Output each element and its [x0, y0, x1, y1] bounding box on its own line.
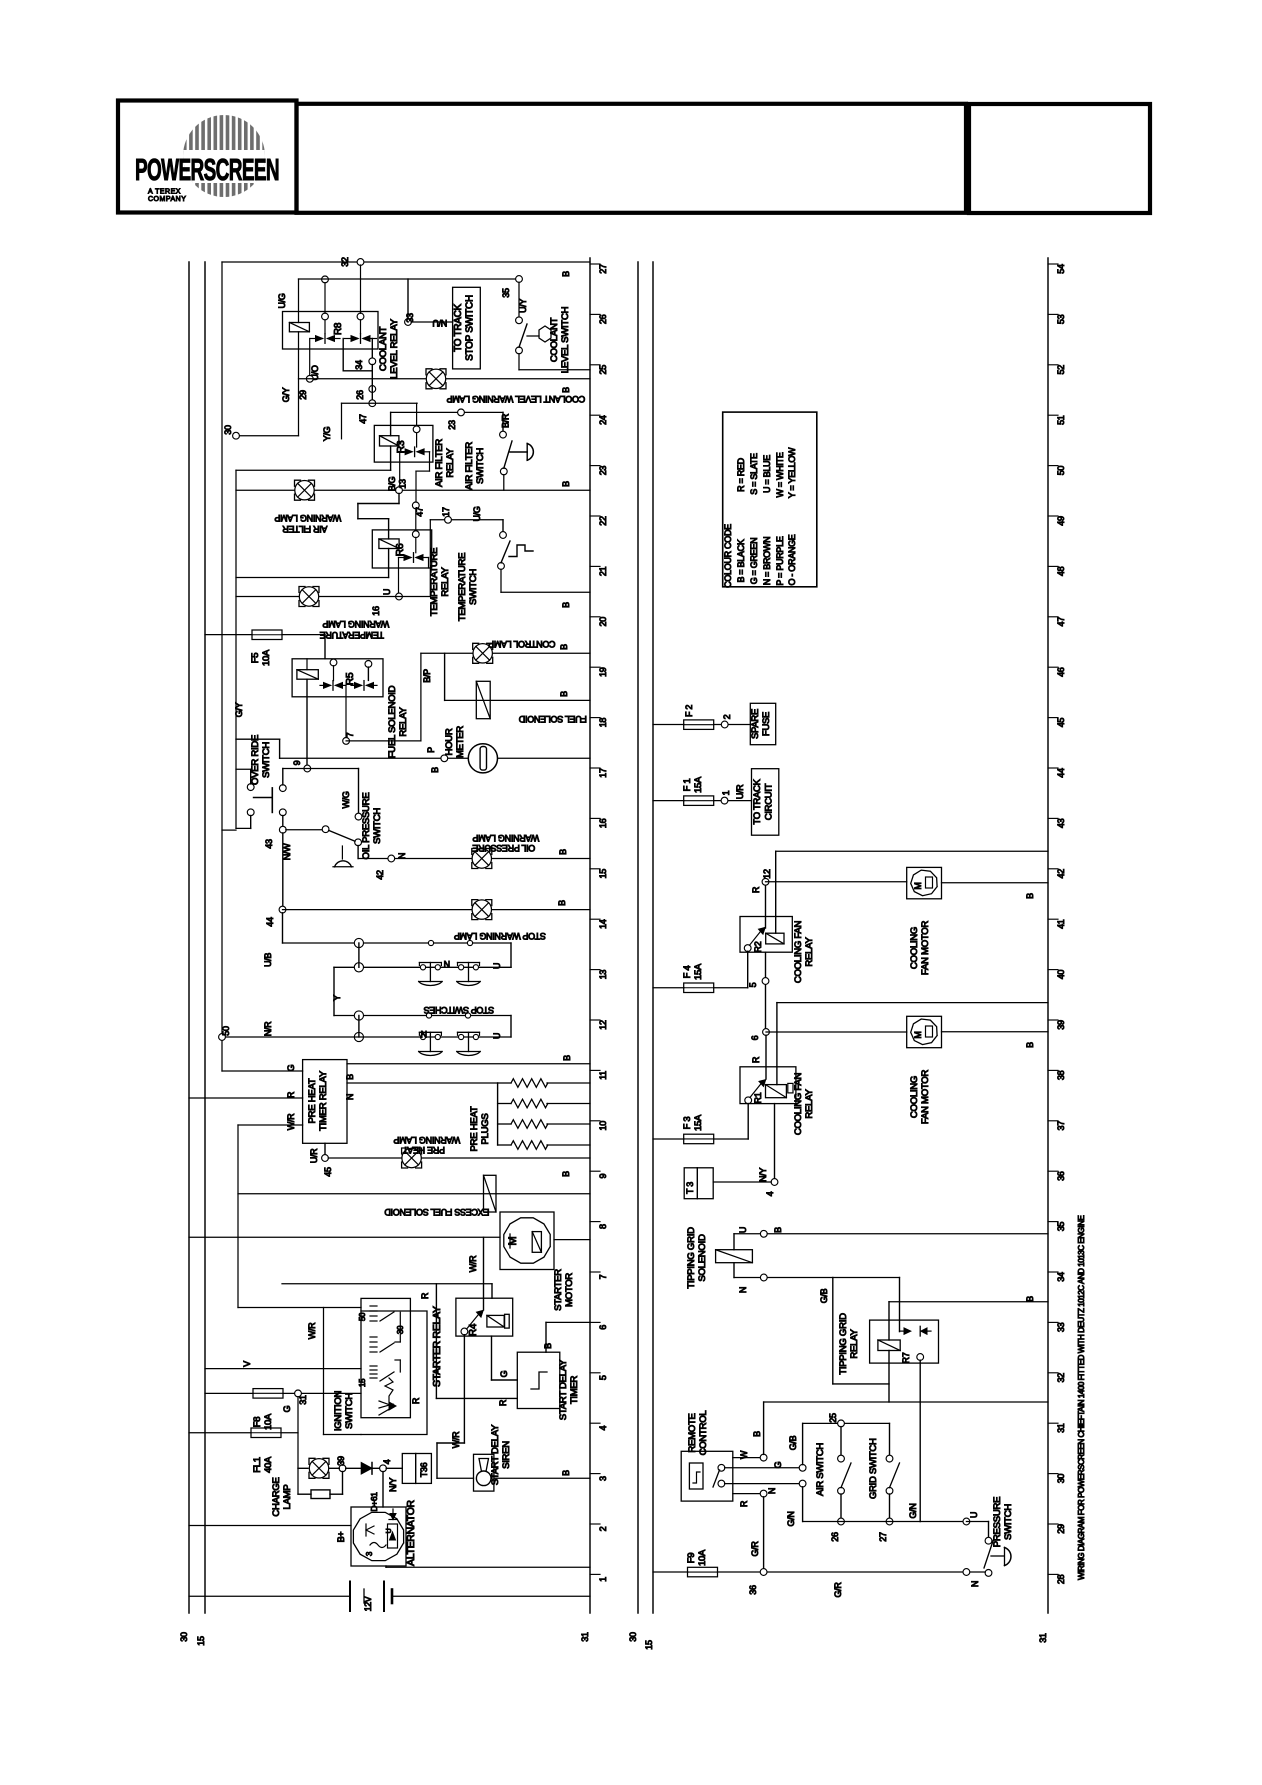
svg-text:W/R: W/R: [286, 1113, 296, 1130]
svg-text:17: 17: [441, 507, 451, 517]
wire fuse F2 feed: [653, 724, 684, 726]
ignition switch glow symbol: [379, 1401, 396, 1415]
terminal 45: [322, 1155, 333, 1177]
svg-text:B/R: B/R: [501, 413, 511, 428]
terminal circle third wire: [786, 1480, 806, 1526]
svg-text:N/Y: N/Y: [388, 1478, 398, 1492]
section1 earth rail 31 (right vertical): [589, 258, 591, 1613]
svg-text:START DELAY: START DELAY: [558, 1359, 569, 1420]
oil pressure switch contact top: [355, 813, 362, 820]
relay R6 contact: [399, 509, 429, 594]
wire colour label B motor1: [1025, 893, 1035, 899]
wire from coolant relay contact2 top to terminal 33: [407, 279, 409, 319]
terminal 35: [501, 276, 522, 298]
svg-text:R7: R7: [901, 1352, 911, 1363]
svg-text:G/Y: G/Y: [281, 387, 291, 402]
wire to pre heat warning lamp: [328, 1157, 590, 1159]
svg-text:27: 27: [598, 264, 608, 274]
air filter warning lamp: [295, 480, 315, 500]
relay R7 terminal circle: [917, 1354, 924, 1361]
terminal 33 and wire N/U to track stop switch box: [405, 313, 453, 328]
excess fuel solenoid: [484, 1175, 497, 1212]
svg-text:GRID SWITCH: GRID SWITCH: [868, 1438, 879, 1499]
air filter switch: [500, 412, 512, 474]
wire terminal 43 to oil pressure switch: [286, 829, 323, 831]
wire from R6 coil bottom to feed column: [236, 549, 389, 578]
wire colour label B row9: [561, 1171, 571, 1177]
svg-text:SWITCH: SWITCH: [1003, 1504, 1014, 1540]
wire colour label B row27: [561, 271, 571, 277]
wire row7 starter motor feed: [189, 1236, 500, 1238]
relay R3 coil top wire to terminal 23: [391, 412, 503, 435]
svg-text:45: 45: [1056, 718, 1066, 728]
wire V into ignition switch: [205, 1361, 361, 1369]
svg-text:28: 28: [1056, 1574, 1066, 1584]
svg-text:10A: 10A: [697, 1549, 708, 1566]
wire G/Y from R8 coil to terminal 30: [281, 332, 299, 436]
stop switch 4: [457, 1032, 480, 1055]
ignition switch position 15 contacts: [358, 1366, 394, 1387]
svg-text:COMPANY: COMPANY: [148, 196, 186, 203]
colour code text column 1: [723, 524, 797, 588]
svg-text:N/W: N/W: [282, 843, 292, 860]
terminal 16 with label U: [371, 589, 402, 616]
svg-text:AIR FILTER: AIR FILTER: [434, 439, 445, 487]
label COOLANT LEVEL SWITCH: [549, 306, 571, 373]
junction 9: [292, 760, 311, 772]
svg-text:2: 2: [722, 714, 732, 719]
svg-text:FUSE: FUSE: [761, 712, 772, 736]
wire row20 temperature warning lamp wire: [236, 520, 430, 597]
stop switch labels lower: [421, 1029, 502, 1039]
stop switch 3: [419, 1032, 442, 1055]
wire label G/R bottom: [833, 1582, 843, 1598]
fuse F9 10A: [688, 1567, 718, 1577]
svg-text:B: B: [562, 1055, 572, 1061]
oil pressure switch diaphragm symbol: [333, 846, 353, 867]
svg-text:T36: T36: [419, 1462, 429, 1477]
fuse F5 10A: [252, 630, 282, 640]
relay R3 coil: [380, 436, 399, 446]
label T3: [685, 1182, 695, 1194]
svg-text:COOLANT: COOLANT: [378, 326, 389, 371]
svg-text:B/G: B/G: [387, 476, 397, 491]
ignition switch inner box: [361, 1298, 410, 1417]
label GRID SWITCH: [868, 1438, 879, 1499]
ignition switch heater resistor: [385, 1378, 393, 1402]
label TIPPING GRID RELAY: [838, 1313, 860, 1375]
svg-text:V: V: [242, 1361, 252, 1367]
svg-text:49: 49: [1056, 516, 1066, 526]
relay R8 label: [333, 322, 344, 335]
terminal circle G wire: [788, 1423, 806, 1471]
svg-text:AIR SWITCH: AIR SWITCH: [815, 1443, 826, 1496]
svg-text:G/R: G/R: [833, 1582, 843, 1598]
svg-text:COOLING FAN: COOLING FAN: [793, 1073, 804, 1136]
wire U/O from R8 contact1 to terminal 29: [310, 365, 320, 380]
terminal circles on upper stop wire: [428, 940, 472, 945]
wire labels U and B tipping solenoid: [738, 1227, 783, 1233]
svg-text:RELAY: RELAY: [440, 566, 451, 596]
svg-text:OVER RIDE: OVER RIDE: [250, 735, 261, 785]
remote control timer symbol box: [689, 1463, 703, 1489]
junction 6: [750, 1029, 769, 1041]
svg-text:STARTER: STARTER: [553, 1269, 564, 1311]
tipping grid solenoid coil: [716, 1234, 753, 1278]
wire from R3 coil bottom to feed column: [236, 446, 391, 470]
svg-text:15A: 15A: [693, 963, 704, 980]
svg-text:N: N: [345, 1094, 355, 1100]
svg-text:50: 50: [1056, 466, 1066, 476]
svg-text:WARNING LAMP: WARNING LAMP: [322, 619, 389, 629]
section1 row ticks and numbers 1-27: [590, 264, 608, 1582]
svg-text:SIREN: SIREN: [501, 1441, 512, 1469]
wire G from remote control to air switch: [725, 1461, 800, 1468]
svg-text:2: 2: [598, 1526, 608, 1531]
svg-text:B: B: [1025, 1296, 1035, 1302]
wire siren to rail row3: [494, 1470, 590, 1478]
svg-text:PRESSURE: PRESSURE: [992, 1497, 1003, 1547]
section1 supply rail 15 (second vertical): [204, 262, 206, 1613]
wire W/R from starter wire to relay R4: [468, 1237, 484, 1310]
pre heat plugs bracket: [497, 1083, 499, 1145]
wire row19 control lamp wire: [421, 652, 590, 654]
wire third remote output to G/N wire: [725, 1483, 800, 1485]
pressure switch diaphragm symbol: [991, 1548, 1011, 1566]
section2 rail 31 label: [1038, 1633, 1048, 1643]
start delay timer box: [517, 1352, 560, 1408]
coolant level warning lamp: [426, 369, 446, 389]
wire R feed from ignition to R4 and start delay timer: [282, 1284, 492, 1299]
over ride switch actuator: [254, 788, 273, 813]
wire W/R from R4 contact to siren feed: [451, 1335, 464, 1449]
svg-text:SWITCH: SWITCH: [475, 448, 486, 484]
svg-text:WARNING LAMP: WARNING LAMP: [274, 513, 341, 523]
svg-text:9: 9: [598, 1174, 608, 1179]
svg-text:7: 7: [598, 1274, 608, 1279]
wire R into pre heat relay: [189, 1091, 303, 1098]
svg-text:TIMER RELAY: TIMER RELAY: [318, 1070, 329, 1131]
svg-text:COOLANT LEVEL WARNING LAMP: COOLANT LEVEL WARNING LAMP: [447, 394, 586, 404]
relay R8 coil: [289, 323, 309, 332]
svg-text:N/Y: N/Y: [758, 1168, 768, 1182]
label STOP WARNING LAMP: [454, 931, 546, 941]
svg-text:35: 35: [1056, 1222, 1066, 1232]
label STARTER RELAY: [431, 1306, 443, 1387]
wire U/Y coolant level switch feed: [518, 282, 528, 317]
svg-text:45: 45: [323, 1167, 333, 1177]
svg-text:34: 34: [354, 360, 364, 370]
svg-text:RELAY: RELAY: [804, 1088, 815, 1118]
starter motor M symbol: [507, 1234, 519, 1248]
fuse F1 15A: [684, 796, 714, 806]
svg-text:G: G: [499, 1370, 509, 1377]
label HOUR METER: [444, 726, 466, 758]
svg-text:U: U: [492, 963, 502, 969]
wire colour label B row24: [561, 387, 571, 393]
svg-text:SWITCH: SWITCH: [261, 742, 272, 778]
wire U/R from pre heat relay to pre heat warning lamp: [309, 1143, 325, 1163]
wire Y linking stop switch pairs: [332, 967, 342, 1015]
svg-text:40: 40: [1056, 970, 1066, 980]
relay R7 tipping grid relay box: [870, 1320, 939, 1363]
relay R5 fuel solenoid relay box: [292, 659, 383, 697]
label PRE HEAT PLUGS: [469, 1106, 491, 1151]
svg-text:21: 21: [598, 566, 608, 576]
label COOLING FAN MOTOR lower: [909, 1070, 931, 1125]
relay R1 resistor: [788, 1083, 793, 1093]
svg-text:41: 41: [1056, 919, 1066, 929]
terminal 27 section2: [878, 1518, 893, 1542]
svg-text:34: 34: [1056, 1272, 1066, 1282]
wire from over ride pole2 up to junction 9 row: [283, 769, 359, 785]
svg-text:AIR FILTER: AIR FILTER: [464, 442, 475, 490]
wire row31-32 long B return wire: [764, 1401, 1048, 1403]
label REMOTE CONTROL: [687, 1410, 709, 1456]
ignition switch position 50 contacts: [358, 1306, 394, 1321]
relay R1 cooling fan relay box: [740, 1067, 796, 1104]
label START DELAY SIREN: [490, 1424, 512, 1485]
wire row42 cooling fan motor 1 wire: [766, 881, 907, 883]
svg-text:6: 6: [750, 1035, 760, 1040]
label COOLING FAN RELAY lower: [793, 1073, 815, 1136]
svg-text:LAMP: LAMP: [282, 1485, 293, 1510]
wire colour label B row19: [559, 644, 569, 650]
relay R5 contact 1: [320, 659, 346, 737]
svg-text:AIR FILTER: AIR FILTER: [282, 524, 328, 534]
svg-text:F 4: F 4: [682, 966, 693, 979]
wire row connecting 47 to air filter relay: [342, 402, 418, 404]
svg-text:T 3: T 3: [685, 1182, 695, 1194]
relay R2 contact: [744, 927, 765, 951]
svg-text:START DELAY: START DELAY: [490, 1424, 501, 1485]
wire fuse F2 to spare fuse: [714, 724, 751, 726]
wire G fuse F8 feed: [205, 1392, 253, 1394]
wire feed column from row27: [221, 262, 223, 1071]
svg-text:15: 15: [644, 1640, 654, 1650]
terminal circle tipping solenoid top: [760, 1230, 767, 1237]
wire fuse FL1 to charge lamp column: [281, 1432, 298, 1434]
svg-text:U/R: U/R: [735, 784, 745, 799]
svg-text:PRE HEAT: PRE HEAT: [307, 1078, 318, 1123]
wire row18 fuel solenoid wire: [445, 653, 590, 700]
wire B from R7 coil to rail row33: [889, 1296, 1048, 1340]
stop warning lamp: [472, 900, 492, 920]
diode on charge lamp wire: [346, 1463, 380, 1475]
svg-text:U: U: [492, 1033, 502, 1039]
svg-text:D+61: D+61: [369, 1492, 379, 1512]
svg-text:TO TRACK: TO TRACK: [752, 778, 763, 824]
label PRE HEAT TIMER RELAY: [307, 1070, 329, 1131]
relay R5 coil bottom wire to junction 9: [306, 679, 308, 765]
relay R7 coil: [878, 1340, 900, 1351]
wire to terminal 30: [236, 435, 299, 437]
svg-text:47: 47: [358, 414, 368, 424]
svg-text:6: 6: [598, 1325, 608, 1330]
svg-text:M: M: [913, 1031, 923, 1038]
svg-text:B: B: [1025, 1042, 1035, 1048]
wire B from pre heat relay to rail row11: [345, 1064, 590, 1080]
section2 rail 30 label: [628, 1632, 638, 1642]
label COOLING FAN MOTOR upper: [909, 921, 931, 976]
svg-text:44: 44: [265, 917, 275, 927]
wire rail to alternator B+: [189, 1525, 351, 1527]
to track circuit box: [752, 769, 779, 836]
terminal 26: [355, 365, 376, 401]
stop switch 2: [457, 963, 480, 986]
svg-text:B: B: [561, 481, 571, 487]
svg-text:N/U: N/U: [433, 318, 448, 328]
wire R branch to start delay timer: [436, 1284, 517, 1406]
pre heat timer relay box: [303, 1060, 347, 1144]
svg-text:36: 36: [1056, 1171, 1066, 1181]
svg-text:F9: F9: [686, 1553, 697, 1564]
wire colour label B row15: [558, 849, 568, 855]
svg-text:G/B: G/B: [819, 1288, 829, 1303]
svg-text:31: 31: [1056, 1423, 1066, 1433]
svg-text:30: 30: [1056, 1474, 1066, 1484]
svg-text:OIL PRESSURE: OIL PRESSURE: [361, 793, 372, 860]
label AIR SWITCH: [815, 1443, 826, 1496]
svg-text:15A: 15A: [693, 1114, 704, 1131]
svg-text:N: N: [397, 853, 407, 859]
cooling fan motor 2 box: [907, 1016, 942, 1047]
svg-text:R: R: [751, 1056, 761, 1063]
wire N/Y R1 coil bottom to terminal 4: [758, 1104, 775, 1182]
svg-text:19: 19: [598, 667, 608, 677]
svg-text:U/B: U/B: [263, 953, 273, 967]
svg-text:U/Y: U/Y: [518, 299, 528, 313]
label FUEL SOLENOID: [518, 714, 587, 724]
svg-text:B: B: [561, 1171, 571, 1177]
wire B start delay timer to rail row6: [543, 1322, 590, 1352]
svg-text:44: 44: [1056, 768, 1066, 778]
wire colour label B motor2: [1025, 1042, 1035, 1048]
terminal circle N wire: [750, 1490, 767, 1569]
pre heat warning lamp: [402, 1148, 422, 1168]
svg-text:PRE HEAT: PRE HEAT: [469, 1106, 480, 1151]
relay R6 temperature relay box: [372, 530, 431, 568]
wire terminal 4 to relay T36: [386, 1467, 402, 1469]
svg-text:23: 23: [598, 466, 608, 476]
wire to pressure switch top contact: [966, 1522, 988, 1538]
svg-text:N: N: [444, 959, 450, 969]
wire row39-40 from rail to cooling fan relay R1: [777, 1003, 1048, 1067]
wire G from R4 coil to start delay timer: [492, 1336, 518, 1380]
svg-text:WIRING DIAGRAM FOR POWERSCREEN: WIRING DIAGRAM FOR POWERSCREEN CHIEFTAIN…: [1077, 1216, 1086, 1580]
grid switch: [886, 1423, 899, 1521]
wire W/G to oil pressure switch: [341, 769, 359, 814]
svg-text:EXCESS FUEL SOLENOID: EXCESS FUEL SOLENOID: [384, 1207, 489, 1217]
start delay siren symbol: [476, 1459, 491, 1486]
terminal 50: [219, 1026, 231, 1040]
fuse FL1 label: [252, 1456, 274, 1473]
svg-text:B/P: B/P: [422, 669, 432, 683]
svg-text:36: 36: [748, 1585, 758, 1595]
terminal N pressure switch: [963, 1569, 980, 1588]
label OIL PRESSURE SWITCH: [361, 793, 383, 860]
fuse F8 label: [252, 1413, 274, 1430]
relay R2 label: [753, 941, 763, 952]
svg-text:U/R: U/R: [309, 1148, 319, 1163]
label IGNITION SWITCH: [333, 1391, 355, 1432]
ignition switch position 30 contacts: [370, 1325, 405, 1352]
svg-text:B: B: [557, 900, 567, 906]
svg-text:B = BLACK: B = BLACK: [736, 539, 746, 582]
svg-text:B: B: [561, 1470, 571, 1476]
label COOLANT LEVEL WARNING LAMP: [447, 394, 586, 404]
svg-text:B: B: [752, 1431, 762, 1437]
svg-text:30: 30: [223, 425, 233, 435]
svg-text:S = SLATE: S = SLATE: [749, 453, 759, 495]
terminal 34: [354, 358, 376, 370]
wire row14 stop warning lamp wire: [283, 909, 591, 911]
wire row24 coolant level warning lamp wire: [299, 378, 591, 380]
terminal 1: [721, 790, 731, 804]
svg-text:R: R: [286, 1091, 296, 1098]
wire G/N from R7 to pressure switch wire: [908, 1360, 920, 1521]
ignition switch R label: [411, 1397, 421, 1404]
svg-text:IGNITION: IGNITION: [333, 1391, 344, 1432]
svg-text:40A: 40A: [263, 1456, 274, 1473]
relay R5 label: [344, 672, 356, 685]
svg-text:38: 38: [1056, 1070, 1066, 1080]
svg-text:F 2: F 2: [684, 705, 694, 717]
section1 rail 31 label: [580, 1632, 590, 1642]
svg-text:N = BROWN: N = BROWN: [762, 537, 772, 586]
svg-text:43: 43: [1056, 818, 1066, 828]
svg-text:METER: METER: [455, 726, 466, 758]
junction 47 upper: [358, 400, 376, 424]
svg-text:30: 30: [179, 1632, 189, 1642]
svg-text:N/R: N/R: [263, 1021, 273, 1036]
wire fuse F3 to R1 contact: [714, 1104, 749, 1140]
svg-text:54: 54: [1056, 264, 1066, 274]
label SPARE FUSE: [750, 709, 772, 739]
fuse F3 15A: [684, 1134, 714, 1144]
svg-text:SWITCH: SWITCH: [468, 569, 479, 605]
svg-text:25: 25: [828, 1413, 838, 1423]
label TEMPERATURE SWITCH: [457, 553, 479, 621]
svg-text:U: U: [386, 1528, 393, 1533]
svg-text:27: 27: [878, 1532, 888, 1542]
svg-text:R: R: [420, 1292, 430, 1299]
svg-text:LEVEL RELAY: LEVEL RELAY: [389, 318, 400, 379]
svg-text:STOP SWITCHES: STOP SWITCHES: [424, 1005, 495, 1015]
svg-text:FAN MOTOR: FAN MOTOR: [920, 921, 931, 976]
svg-text:HOUR: HOUR: [444, 728, 455, 755]
tipping grid solenoid bottom wire: [734, 1278, 900, 1294]
svg-text:M: M: [507, 1236, 519, 1245]
svg-text:B: B: [558, 849, 568, 855]
wire N from pre heat relay to pre heat plugs: [345, 1083, 498, 1100]
relay R1 contact: [745, 1080, 766, 1104]
wire alternator output to rail: [386, 1566, 590, 1567]
svg-text:R8: R8: [333, 322, 344, 335]
wire row22 air filter warning lamp wire: [236, 489, 590, 491]
svg-text:REMOTE: REMOTE: [687, 1413, 698, 1452]
fuse F1 label: [682, 776, 704, 793]
starter motor solenoid symbol: [532, 1232, 541, 1253]
wire G column down to charge lamp circuit: [297, 1397, 299, 1494]
svg-text:MOTOR: MOTOR: [564, 1273, 575, 1307]
svg-text:SWITCH: SWITCH: [344, 1393, 355, 1429]
svg-text:29: 29: [298, 390, 308, 400]
svg-text:G = GREEN: G = GREEN: [749, 538, 759, 585]
relay R4 resistor: [505, 1314, 510, 1328]
wire G/N row29 to pressure switch: [803, 1521, 967, 1523]
wire from feed column to over ride bottom: [222, 829, 236, 831]
